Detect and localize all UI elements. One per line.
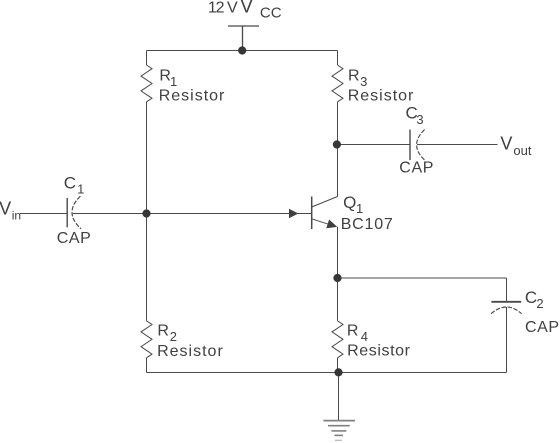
svg-text:out: out (513, 143, 531, 158)
svg-text:CAP: CAP (525, 319, 560, 336)
svg-text:CC: CC (260, 5, 282, 22)
svg-text:C: C (64, 173, 76, 192)
svg-text:Resistor: Resistor (157, 343, 224, 360)
svg-text:Resistor: Resistor (348, 87, 415, 104)
svg-text:Q: Q (343, 193, 356, 212)
svg-text:BC107: BC107 (341, 216, 394, 233)
svg-text:V: V (240, 0, 253, 17)
svg-text:CAP: CAP (399, 160, 434, 177)
svg-text:CAP: CAP (57, 230, 92, 247)
svg-text:2: 2 (170, 329, 177, 344)
svg-text:R: R (348, 68, 360, 85)
svg-text:12: 12 (208, 0, 225, 16)
svg-text:V: V (0, 198, 11, 218)
svg-text:V: V (227, 0, 238, 16)
svg-text:1: 1 (356, 201, 363, 216)
svg-text:1: 1 (77, 182, 84, 197)
svg-text:in: in (12, 209, 21, 223)
svg-text:R: R (347, 322, 359, 339)
svg-text:2: 2 (536, 296, 543, 311)
svg-text:Resistor: Resistor (347, 342, 411, 359)
svg-text:R: R (157, 322, 169, 339)
svg-text:V: V (500, 133, 512, 153)
svg-text:3: 3 (416, 112, 423, 127)
svg-text:Resistor: Resistor (159, 87, 226, 104)
svg-text:C: C (525, 288, 537, 307)
